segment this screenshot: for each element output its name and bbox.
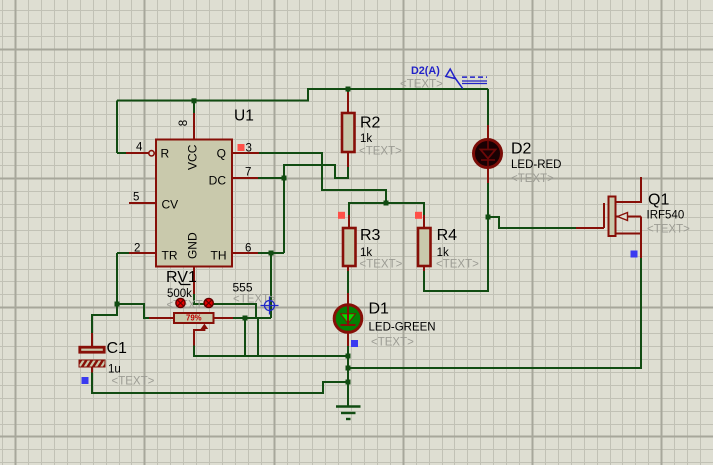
svg-text:1k: 1k <box>360 133 372 145</box>
RV1 value 500k <box>167 288 192 300</box>
R4 value 1k <box>437 247 449 259</box>
svg-text:GND: GND <box>186 232 200 259</box>
blue marker D1 <box>351 340 358 347</box>
pin number 2 <box>134 243 140 255</box>
junction ground node / source rail <box>346 366 351 371</box>
D2 value LED-RED <box>511 159 561 171</box>
wire pin7 discharge <box>232 177 284 179</box>
junction R3/R4 top node <box>384 201 389 206</box>
D1 value LED-GREEN <box>369 322 436 334</box>
svg-text:D2: D2 <box>511 141 532 158</box>
svg-text:<TEXT>: <TEXT> <box>359 146 402 158</box>
junction pin6 node <box>269 251 274 256</box>
wire pin6 threshold <box>232 252 284 254</box>
svg-text:Q1: Q1 <box>648 192 669 209</box>
RV1 pin marker right <box>204 298 213 307</box>
svg-text:1k: 1k <box>360 247 372 259</box>
wire D2 cathode column <box>487 168 489 217</box>
svg-text:Q: Q <box>217 147 226 161</box>
wire R4 bottom to D2 cathode <box>424 217 488 291</box>
svg-text:R4: R4 <box>437 227 458 244</box>
RV1 reference label <box>166 269 197 286</box>
svg-text:R2: R2 <box>360 115 381 132</box>
svg-text:R3: R3 <box>360 227 381 244</box>
wire pin3 output to R3/R4 <box>232 153 386 203</box>
svg-text:<TEXT>: <TEXT> <box>436 259 479 271</box>
resistor R4 <box>418 228 431 266</box>
svg-text:<TEXT>: <TEXT> <box>371 337 414 349</box>
U1 value 555 <box>233 281 253 295</box>
svg-text:2: 2 <box>134 243 140 255</box>
svg-text:1k: 1k <box>437 247 449 259</box>
R4 reference label <box>437 227 458 244</box>
junction R2/VCC rail <box>346 87 351 92</box>
wire R3 bottom to D1 <box>347 266 349 325</box>
R3 value 1k <box>360 247 372 259</box>
wire pin5 CV stub <box>129 202 156 204</box>
svg-text:<TEXT>: <TEXT> <box>511 173 554 185</box>
R2 text placeholder <box>359 146 402 158</box>
wire wiper rail <box>194 345 348 356</box>
U1 pin name GND <box>186 232 200 259</box>
D1 text placeholder <box>371 337 414 349</box>
D1 reference label <box>369 301 390 318</box>
wire pin7 node up to pin6 column <box>283 178 285 253</box>
R2 reference label <box>360 115 381 132</box>
probe label D2(A) <box>411 65 440 77</box>
svg-text:7: 7 <box>245 167 251 179</box>
svg-text:LED-RED: LED-RED <box>511 159 561 171</box>
svg-text:79%: 79% <box>186 314 202 323</box>
svg-text:3: 3 <box>246 143 252 155</box>
svg-text:R: R <box>161 147 170 161</box>
U1 reference label <box>234 108 254 125</box>
wire gate branch <box>488 217 604 228</box>
red state square R3 <box>338 212 345 219</box>
C1 reference label <box>107 340 128 357</box>
wire C1 bottom to ground rail <box>92 367 348 393</box>
pin number 6 <box>245 243 251 255</box>
svg-text:CV: CV <box>162 198 179 212</box>
svg-text:<TEXT>: <TEXT> <box>400 79 443 91</box>
RV1 left lead <box>149 317 174 319</box>
pin number 7 <box>245 167 251 179</box>
U1 pin name Q <box>217 147 226 161</box>
junction VCC/pin8 <box>192 98 197 103</box>
C1 text placeholder <box>112 376 155 388</box>
R4 text placeholder <box>436 259 479 271</box>
svg-text:5: 5 <box>133 192 139 204</box>
R3 text placeholder <box>360 259 403 271</box>
MOSFET Q1 IRF540 <box>604 177 641 236</box>
svg-text:LED-GREEN: LED-GREEN <box>369 322 436 334</box>
capacitor C1 <box>78 347 107 369</box>
svg-text:<TEXT>: <TEXT> <box>360 259 403 271</box>
svg-text:555: 555 <box>233 281 253 295</box>
RV1 text placeholder <box>167 300 210 312</box>
junction ground node / C1 rail <box>346 380 351 385</box>
RV1 label tick mark <box>179 281 191 284</box>
wire pin4 reset <box>117 151 154 156</box>
555 timer U1 body <box>156 140 232 267</box>
pin number 8 <box>178 120 190 126</box>
potentiometer RV1 body <box>174 313 214 323</box>
RV1 percent label <box>186 314 202 323</box>
resistor R2 <box>342 113 355 152</box>
svg-text:TR: TR <box>162 249 178 263</box>
wire node to R4 top <box>386 203 424 228</box>
svg-text:U1: U1 <box>234 108 254 125</box>
D2 reference label <box>511 141 532 158</box>
red state square R4 <box>415 212 422 219</box>
voltage probe D2(A) <box>446 69 487 89</box>
C1 value 1u <box>108 364 121 376</box>
svg-text:8: 8 <box>178 120 190 126</box>
U1 pin name CV <box>162 198 179 212</box>
probe text placeholder <box>400 79 443 91</box>
wire mid vertical to ground rail <box>257 318 259 356</box>
ground symbol <box>336 407 361 420</box>
svg-text:DC: DC <box>209 174 227 188</box>
wire node to R3 top <box>349 203 386 228</box>
RV1 right lead <box>214 317 234 319</box>
LED D2 red <box>474 140 502 168</box>
svg-text:C1: C1 <box>107 340 128 357</box>
junction pin7 node <box>282 176 287 181</box>
Q1 text placeholder <box>647 224 690 236</box>
svg-text:D1: D1 <box>369 301 390 318</box>
junction pin2 node <box>115 302 120 307</box>
U1 pin name R <box>161 147 170 161</box>
RV1 wiper arrow <box>194 324 208 346</box>
wire to C1 top <box>92 304 117 347</box>
junction D2 cathode / gate node <box>486 215 491 220</box>
junction D1 cathode / wiper rail <box>346 354 351 359</box>
wire pin7 to R2 bottom <box>284 152 348 178</box>
svg-text:IRF540: IRF540 <box>647 210 685 222</box>
wire RV1 right to junction <box>233 317 271 319</box>
svg-text:<TEXT>: <TEXT> <box>167 300 210 312</box>
U1 pin name TH <box>211 249 227 263</box>
svg-text:4: 4 <box>136 142 143 154</box>
red state square pin3 <box>238 144 245 151</box>
RV1 pin marker left <box>176 298 185 307</box>
pin number 3 <box>246 143 252 155</box>
svg-text:6: 6 <box>245 243 251 255</box>
wire pin2 trigger <box>117 253 156 304</box>
svg-text:D2(A): D2(A) <box>411 65 440 77</box>
resistor R3 <box>343 228 356 266</box>
pin number 4 <box>136 142 143 154</box>
U1 text placeholder <box>233 294 276 306</box>
svg-text:<TEXT>: <TEXT> <box>647 224 690 236</box>
origin marker <box>261 297 279 315</box>
wire VCC top rail <box>117 89 488 101</box>
wire pin1 GND stub <box>194 267 256 319</box>
blue marker C1 <box>82 377 89 384</box>
U1 pin name DC <box>209 174 227 188</box>
Q1 value IRF540 <box>647 210 685 222</box>
svg-text:TH: TH <box>211 249 227 263</box>
svg-text:<TEXT>: <TEXT> <box>112 376 155 388</box>
U1 pin name VCC <box>186 144 200 170</box>
svg-text:1u: 1u <box>108 364 121 376</box>
R3 reference label <box>360 227 381 244</box>
wire VCC to pin4 left vertical <box>116 101 118 154</box>
blue marker Q1 <box>631 251 638 258</box>
wire Q1 source to ground rail <box>348 234 641 368</box>
wire D1 bottom <box>347 333 349 356</box>
wire D2 anode from rail <box>487 89 489 140</box>
pin number 5 <box>133 192 139 204</box>
LED D1 green <box>334 305 362 333</box>
wire to RV1 left <box>117 304 149 318</box>
R2 value 1k <box>360 133 372 145</box>
wire R2 top stub <box>347 89 349 113</box>
U1 pin name TR <box>162 249 178 263</box>
D2 text placeholder <box>511 173 554 185</box>
wire ground column <box>347 356 349 406</box>
svg-text:RV1: RV1 <box>166 269 197 286</box>
svg-text:VCC: VCC <box>186 144 200 170</box>
wire pin8 stub <box>193 101 195 139</box>
Q1 reference label <box>648 192 669 209</box>
junction RV1 wiper node <box>243 316 248 321</box>
wire wiper node vertical <box>244 318 246 356</box>
wire pin6 down to RV1 row <box>270 253 272 318</box>
